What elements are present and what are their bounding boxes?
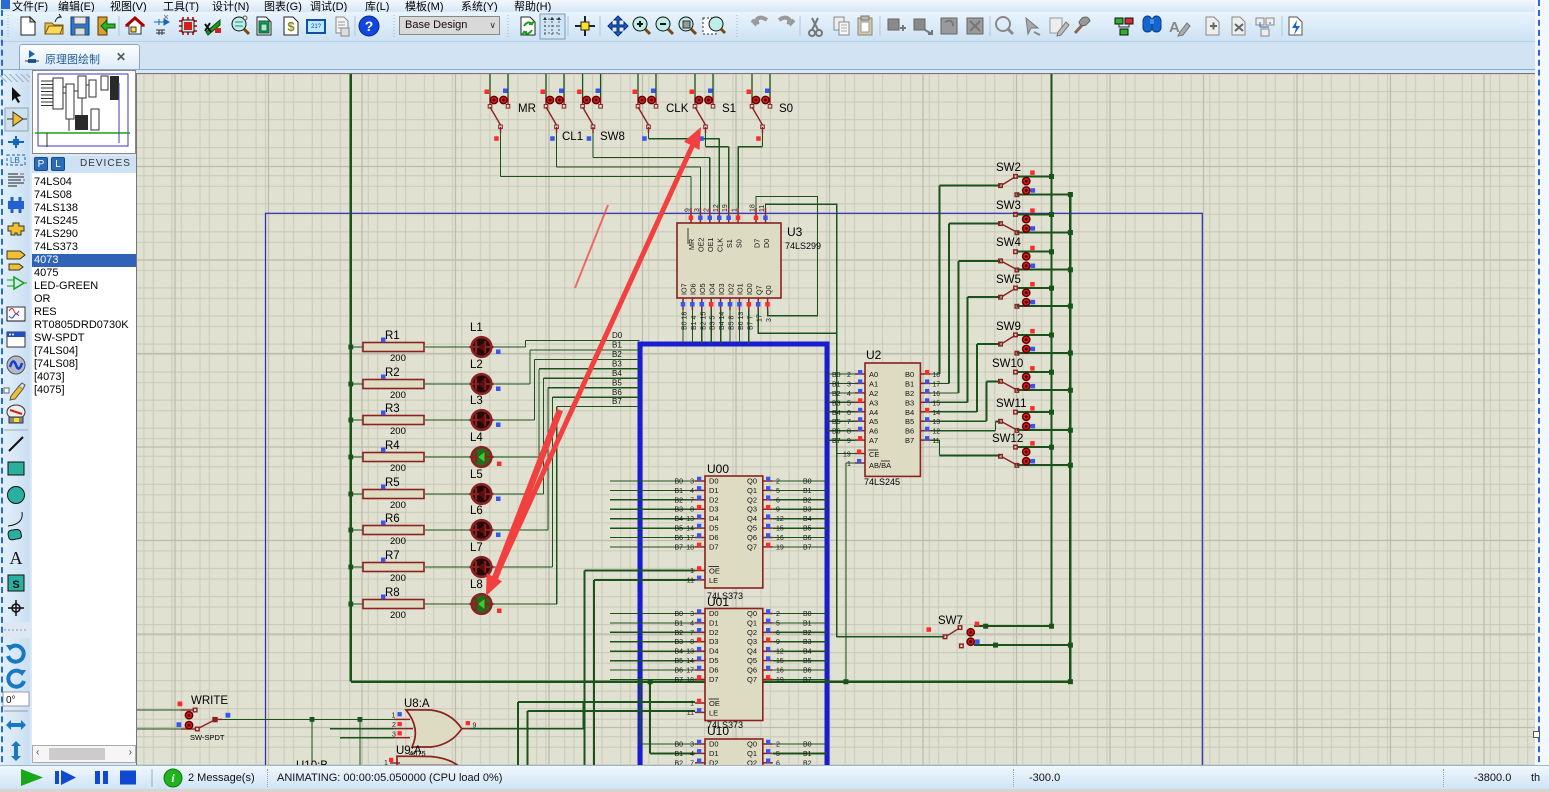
- svg-text:OE2: OE2: [697, 238, 706, 252]
- svg-text:A3: A3: [869, 398, 878, 407]
- svg-text:B3 5: B3 5: [710, 315, 717, 330]
- svg-text:U2: U2: [866, 348, 882, 362]
- wire top switch nets to U3: [501, 133, 763, 208]
- svg-text:B3: B3: [832, 400, 841, 407]
- svg-text:S1: S1: [722, 103, 736, 115]
- svg-text:SW-SPDT: SW-SPDT: [190, 733, 225, 742]
- svg-text:B6: B6: [612, 388, 622, 397]
- svg-text:200: 200: [390, 536, 406, 547]
- svg-text:R5: R5: [385, 477, 400, 489]
- svg-text:B6: B6: [905, 427, 914, 436]
- wire right vertical buses: [1051, 72, 1070, 682]
- svg-text:B1: B1: [832, 381, 841, 388]
- switch MR: [485, 72, 536, 141]
- schematic canvas: [136, 73, 1536, 765]
- svg-text:IO0: IO0: [745, 283, 754, 295]
- junction nodes: [310, 174, 1073, 722]
- LED L4 (lit green): [470, 432, 502, 467]
- svg-text:CLK: CLK: [716, 238, 725, 252]
- svg-text:9: 9: [473, 722, 477, 729]
- switch SW2: [996, 162, 1035, 197]
- wire right-side verticals from loops to U2/SW7: [837, 333, 945, 682]
- svg-text:R7: R7: [385, 550, 400, 562]
- svg-text:SW5: SW5: [996, 274, 1021, 286]
- svg-text:B4: B4: [905, 408, 914, 417]
- svg-text:B7 7: B7 7: [747, 315, 754, 330]
- wire U2 right to switch bundle: [930, 186, 1000, 456]
- svg-text:D0: D0: [762, 239, 771, 248]
- svg-text:21?: 21?: [311, 24, 322, 30]
- svg-text:12: 12: [932, 429, 940, 436]
- svg-text:CE: CE: [869, 450, 879, 459]
- transceiver U2 74LS245: [832, 348, 940, 487]
- switch SW12: [992, 433, 1035, 467]
- left panel: [30, 70, 136, 765]
- svg-text:A4: A4: [869, 408, 878, 417]
- toolbar: [0, 12, 1549, 42]
- switch S0: [747, 72, 794, 141]
- svg-text:B7: B7: [612, 397, 622, 406]
- svg-text:17: 17: [757, 314, 764, 322]
- svg-text:A: A: [1169, 19, 1180, 36]
- svg-text:3: 3: [766, 318, 773, 322]
- svg-text:9: 9: [847, 438, 851, 445]
- svg-text:L8: L8: [470, 579, 483, 591]
- svg-text:L6: L6: [470, 505, 483, 517]
- svg-text:B0: B0: [905, 370, 914, 379]
- svg-text:R4: R4: [385, 440, 400, 452]
- wire left supply bus vertical: [350, 72, 352, 682]
- svg-text:19: 19: [722, 204, 729, 212]
- svg-text:IO2: IO2: [726, 283, 735, 295]
- svg-text:U10: U10: [707, 724, 729, 738]
- wire resistor rows: [351, 347, 557, 604]
- svg-text:B2: B2: [905, 389, 914, 398]
- svg-text:A: A: [10, 548, 23, 568]
- svg-text:WRITE: WRITE: [191, 695, 228, 707]
- svg-text:0°: 0°: [6, 695, 16, 706]
- svg-text:SW4: SW4: [996, 237, 1022, 249]
- svg-text:74LS299: 74LS299: [785, 241, 821, 251]
- svg-text:IO3: IO3: [717, 283, 726, 295]
- svg-text:IO7: IO7: [679, 283, 688, 295]
- wire OR gate output net: [470, 702, 583, 729]
- LED L7: [470, 542, 501, 577]
- resistor R2: [363, 367, 424, 401]
- annotation thin red line: [575, 205, 608, 288]
- svg-text:B6 13: B6 13: [738, 312, 745, 330]
- switch SW4: [996, 237, 1035, 272]
- LED L5: [470, 469, 501, 504]
- svg-text:L3: L3: [470, 395, 483, 407]
- svg-text:S1: S1: [725, 239, 734, 248]
- svg-text:U01: U01: [707, 595, 729, 609]
- svg-text:200: 200: [390, 390, 406, 401]
- resistor R4: [363, 440, 424, 474]
- svg-text:1: 1: [847, 461, 851, 468]
- svg-text:8: 8: [847, 429, 851, 436]
- svg-text:L4: L4: [470, 432, 483, 444]
- svg-text:B2: B2: [612, 350, 622, 359]
- or-gate U9:A (clipped): [384, 745, 458, 767]
- svg-text:R1: R1: [385, 330, 400, 342]
- svg-text:B7: B7: [832, 438, 841, 445]
- svg-text:A7: A7: [869, 436, 878, 445]
- gate U10:B label (clipped): [296, 760, 328, 772]
- svg-text:18: 18: [750, 204, 757, 212]
- resistor R6: [363, 513, 424, 547]
- svg-text:11: 11: [759, 205, 766, 212]
- svg-text:17: 17: [932, 381, 940, 388]
- switch SW8: [577, 72, 625, 143]
- LED L6: [470, 505, 501, 540]
- svg-text:11: 11: [932, 438, 939, 445]
- svg-text:B5: B5: [905, 417, 914, 426]
- svg-text:B7: B7: [905, 436, 914, 445]
- svg-text:L1: L1: [470, 322, 483, 334]
- tab bar: [0, 42, 1549, 70]
- net labels data bus: [612, 331, 623, 406]
- svg-text:SW8: SW8: [600, 131, 625, 143]
- svg-text:B5: B5: [832, 419, 841, 426]
- switch SW3: [996, 200, 1035, 235]
- svg-text:B2: B2: [832, 391, 841, 398]
- svg-text:B4: B4: [832, 410, 841, 417]
- svg-text:B3: B3: [612, 360, 622, 369]
- svg-text:IO4: IO4: [708, 283, 717, 295]
- latch U01 74LS373: [674, 595, 811, 730]
- svg-text:S0: S0: [779, 103, 793, 115]
- svg-text:15: 15: [932, 400, 940, 407]
- svg-text:U8:A: U8:A: [404, 698, 430, 710]
- or-gate U8:A (4075): [392, 698, 477, 758]
- resistor R3: [363, 403, 424, 437]
- annotation arrow down-left: [486, 410, 560, 596]
- switch WRITE (SW-SPDT): [177, 695, 231, 742]
- svg-text:D0: D0: [612, 331, 623, 340]
- svg-text:IO1: IO1: [736, 283, 745, 295]
- svg-text:B0 18: B0 18: [682, 312, 689, 330]
- svg-text:9: 9: [685, 208, 692, 212]
- svg-text:U3: U3: [787, 225, 803, 239]
- svg-text:SW10: SW10: [992, 358, 1023, 370]
- wire bottom long horizontal net: [351, 681, 1071, 683]
- svg-text:6: 6: [847, 410, 851, 417]
- svg-text:B1 4: B1 4: [691, 315, 698, 330]
- svg-text:200: 200: [390, 573, 406, 584]
- bus boundary box (thick blue): [640, 344, 827, 792]
- switch SW7: [927, 615, 980, 648]
- svg-text:SW7: SW7: [938, 615, 963, 627]
- svg-text:B5 8: B5 8: [729, 315, 736, 330]
- wire U01 latch rows: [518, 614, 827, 766]
- LED L1: [470, 322, 501, 357]
- svg-text:B0: B0: [832, 372, 841, 379]
- svg-text:SW3: SW3: [996, 200, 1021, 212]
- latch U10 74LS373 (clipped at canvas bottom): [674, 724, 811, 792]
- annotation arrow up-right: [492, 127, 701, 585]
- wire U00 latch left/right rows: [584, 481, 827, 765]
- switch SW11: [996, 398, 1035, 432]
- wire LED risers: [525, 341, 556, 605]
- wire data bus lines into box: [525, 341, 639, 407]
- y offset: strip starts at screen 70; local y = screen y - 70: [12, 87, 21, 103]
- switch S1: [690, 72, 737, 141]
- wire U3 feedback loops: [756, 197, 837, 334]
- svg-text:R3: R3: [385, 403, 400, 415]
- svg-text:74LS245: 74LS245: [864, 477, 900, 487]
- svg-text:U9:A: U9:A: [396, 745, 422, 757]
- svg-text:13: 13: [932, 419, 940, 426]
- svg-text:A2: A2: [869, 389, 878, 398]
- svg-text:L5: L5: [470, 469, 483, 481]
- resistor R8: [363, 587, 424, 621]
- svg-text:S: S: [12, 579, 19, 591]
- svg-text:A0: A0: [869, 370, 878, 379]
- svg-text:200: 200: [390, 610, 406, 621]
- svg-text:IO6: IO6: [689, 283, 698, 295]
- svg-text:Q7: Q7: [755, 285, 764, 295]
- shift register U3 74LS299: [677, 204, 821, 330]
- svg-text:B4: B4: [612, 369, 622, 378]
- left tool strip: [0, 70, 30, 765]
- switch SW5: [996, 274, 1035, 308]
- svg-text:16: 16: [932, 391, 940, 398]
- svg-text:B5: B5: [612, 378, 622, 387]
- wire U2 left bus entries: [827, 374, 855, 440]
- LED L8 (lit green): [470, 579, 502, 614]
- svg-text:1: 1: [732, 208, 739, 212]
- top SPDT switches: [485, 72, 794, 143]
- svg-text:3: 3: [392, 731, 396, 738]
- svg-text:200: 200: [390, 426, 406, 437]
- sheet border: [266, 213, 1203, 792]
- status bar: [0, 765, 1549, 789]
- switch SW9: [996, 321, 1035, 355]
- menu bar: [0, 0, 1549, 12]
- svg-text:14: 14: [932, 410, 940, 417]
- svg-text:B6: B6: [832, 429, 841, 436]
- wire WRITE net: [137, 710, 394, 765]
- svg-text:AB/BA: AB/BA: [869, 461, 891, 470]
- svg-text:SW9: SW9: [996, 321, 1021, 333]
- svg-text:CLK: CLK: [666, 103, 689, 115]
- svg-text:A6: A6: [869, 427, 878, 436]
- svg-text:19: 19: [843, 452, 851, 459]
- svg-text:1: 1: [392, 712, 396, 719]
- svg-text:A1: A1: [869, 379, 878, 388]
- LED L2: [470, 359, 501, 394]
- svg-text:B2 15: B2 15: [700, 312, 707, 330]
- switch SW10: [992, 358, 1035, 392]
- svg-text:S0: S0: [734, 239, 743, 248]
- svg-text:OE1: OE1: [706, 238, 715, 252]
- svg-text:SW12: SW12: [992, 433, 1023, 445]
- resistor R1: [363, 330, 424, 364]
- svg-text:B1: B1: [612, 341, 622, 350]
- LED L3: [470, 395, 501, 430]
- svg-text:?: ?: [365, 18, 374, 34]
- svg-text:CL1: CL1: [562, 131, 583, 143]
- svg-text:200: 200: [390, 500, 406, 511]
- svg-text:B1: B1: [905, 379, 914, 388]
- svg-text:200: 200: [390, 463, 406, 474]
- svg-text:5: 5: [847, 400, 851, 407]
- svg-text:R8: R8: [385, 587, 400, 599]
- svg-text:A5: A5: [869, 417, 878, 426]
- svg-text:4: 4: [847, 391, 851, 398]
- latch U00 74LS373: [674, 462, 811, 601]
- svg-text:U00: U00: [707, 462, 729, 476]
- svg-text:R2: R2: [385, 367, 400, 379]
- svg-text:L2: L2: [470, 359, 483, 371]
- svg-text:2: 2: [392, 722, 396, 729]
- resistor R7: [363, 550, 424, 584]
- svg-text:3: 3: [847, 381, 851, 388]
- switch CLK: [633, 72, 689, 141]
- resistor R5: [363, 477, 424, 511]
- svg-text:L7: L7: [470, 542, 483, 554]
- svg-text:3: 3: [694, 208, 701, 212]
- svg-text:12: 12: [713, 204, 720, 212]
- svg-text:LB: LB: [10, 156, 20, 165]
- svg-text:MR: MR: [518, 103, 536, 115]
- wire U3 bottom pins into bus box: [683, 310, 749, 344]
- svg-text:2: 2: [847, 372, 851, 379]
- svg-text:B4 14: B4 14: [719, 312, 726, 330]
- svg-text:IO5: IO5: [698, 283, 707, 295]
- svg-text:R6: R6: [385, 513, 400, 525]
- wire U10 latch rows: [640, 682, 827, 754]
- svg-text:200: 200: [390, 353, 406, 364]
- svg-text:2: 2: [703, 208, 710, 212]
- svg-text:SW11: SW11: [996, 398, 1026, 410]
- svg-text:D7: D7: [752, 239, 761, 248]
- switch CL1: [541, 72, 584, 143]
- svg-text:Q0: Q0: [764, 285, 773, 295]
- svg-text:$: $: [287, 19, 295, 34]
- svg-text:18: 18: [932, 372, 940, 379]
- svg-text:B3: B3: [905, 398, 914, 407]
- svg-text:SW2: SW2: [996, 162, 1021, 174]
- wire right switch throw connections: [974, 176, 1070, 645]
- svg-text:7: 7: [847, 419, 851, 426]
